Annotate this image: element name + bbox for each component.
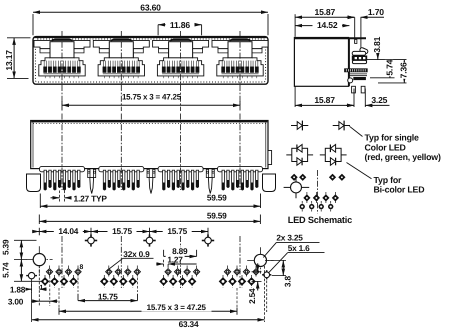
svg-text:13.17: 13.17 — [4, 50, 14, 71]
svg-text:15.75: 15.75 — [112, 226, 132, 236]
front view port 2 contact comb — [102, 61, 104, 67]
front view port 4 top bump — [230, 39, 251, 40]
front view port 1 latch window — [50, 42, 74, 58]
svg-text:63.60: 63.60 — [140, 2, 161, 12]
leader to bi-color LED note — [347, 163, 372, 179]
svg-text:LED Schematic: LED Schematic — [288, 215, 352, 225]
LED schematic pad cluster: bottom pin pads — [301, 201, 303, 212]
side view LED leads bar — [345, 69, 368, 72]
svg-text:3.8: 3.8 — [283, 276, 293, 288]
rear view center spike — [90, 178, 94, 194]
side view bottom pins — [352, 86, 356, 93]
LED schematic pad cluster: LED pads — [291, 174, 297, 180]
rear view left mounting post — [27, 174, 41, 192]
front view port 1 contact comb — [43, 61, 45, 67]
svg-text:Color LED: Color LED — [365, 142, 406, 152]
rear view right mounting post — [263, 174, 276, 192]
svg-text:8: 8 — [80, 264, 84, 271]
side view striped bar — [352, 56, 367, 60]
side view: dim 1.70 — [347, 16, 355, 18]
side view nose lines — [348, 38, 350, 86]
side view LED dome — [348, 78, 353, 83]
front view port 3 lower cavity — [157, 58, 203, 76]
front view port 3 opening — [153, 40, 209, 57]
footprint: dim 3.00 — [49, 276, 51, 306]
footprint: dim 8.89 — [163, 250, 165, 257]
footprint port 2 centerline — [120, 236, 122, 288]
svg-text:15.75 x 3 = 47.25: 15.75 x 3 = 47.25 — [122, 93, 182, 102]
svg-text:Typ for single: Typ for single — [365, 133, 420, 143]
front view: port spacing dim 15.75 x 3 = 47.25 — [61, 101, 63, 111]
rear view port 3 pin shelf — [158, 167, 203, 172]
svg-text:15.75: 15.75 — [167, 226, 187, 236]
side view latch profile — [359, 47, 368, 54]
front view body inner dotted border — [35, 39, 265, 82]
front view port 4 centerline — [239, 31, 241, 105]
svg-text:5.74: 5.74 — [0, 262, 10, 278]
svg-text:1.27 TYP: 1.27 TYP — [74, 193, 108, 203]
svg-text:14.52: 14.52 — [317, 20, 338, 30]
footprint: dim 15.75 (pin group pitch) — [77, 278, 79, 293]
front view port 1 top bump — [52, 39, 73, 40]
side view: dim 3.81 — [377, 41, 379, 60]
LED schematic pad cluster: mounting hole — [284, 186, 291, 188]
side view: dim 3.25 — [346, 104, 354, 106]
rear view port 1 pin shelf — [40, 167, 85, 172]
footprint port 4 bottom pad row — [222, 275, 224, 288]
front view port 4 latch window — [228, 42, 252, 58]
footprint port 3 top pad row — [167, 266, 169, 279]
svg-text:3.25: 3.25 — [371, 95, 387, 105]
rear view port 2 pins — [103, 170, 105, 189]
side view: dim 14.52 — [295, 25, 349, 27]
rear view center spike — [208, 178, 212, 194]
rear view port 2 pin shelf — [99, 167, 144, 172]
side view: dim 5.74 — [389, 60, 391, 78]
footprint port 3 bottom pad row — [163, 275, 165, 288]
rear view LED pin stubs — [88, 169, 90, 177]
rear view port 3 centerline — [180, 114, 182, 191]
footprint port 2 bottom pad row — [103, 275, 105, 288]
LED schematic pad cluster: top pin pads — [306, 192, 308, 203]
svg-text:11.86: 11.86 — [170, 20, 190, 30]
footprint: left mounting hole 3.25 — [26, 259, 53, 261]
footprint port 1 centerline — [61, 236, 63, 288]
rear view port 4 centerline — [239, 114, 241, 191]
svg-text:15.75 x 3 = 47.25: 15.75 x 3 = 47.25 — [147, 303, 207, 312]
rear view LED pin stubs — [147, 169, 149, 177]
footprint: right LED/ground pad — [266, 270, 268, 279]
side view lower latch bar — [352, 60, 366, 63]
side view: top width dim 15.87 — [295, 16, 354, 18]
footprint: left vertical dims 5.39 / 5.74 — [14, 239, 37, 241]
footprint port 3 centerline — [180, 236, 182, 288]
front view port 4 contact comb — [221, 61, 223, 67]
rear view: post span dim 59.59 — [39, 194, 41, 209]
footprint port 4 centerline — [239, 236, 241, 288]
rear view right protrusion — [268, 151, 272, 165]
footprint: left ground pad — [28, 272, 34, 278]
footprint: top dims 14.04 / 15.75 / 15.75 — [33, 231, 39, 233]
svg-text:5.74: 5.74 — [384, 59, 394, 75]
side view: bottom dim 15.87 — [294, 86, 296, 107]
footprint: dim 3.8 — [265, 259, 286, 261]
front view body outline — [33, 37, 268, 85]
side view LED body bar — [354, 77, 366, 80]
rear view port 2 centerline — [120, 114, 122, 191]
rear view LED pin stubs — [206, 169, 208, 177]
rear view port 1 centerline — [61, 114, 63, 191]
svg-text:59.59: 59.59 — [207, 211, 227, 221]
svg-text:5.39: 5.39 — [0, 239, 10, 255]
LED schematic: bi-color LED B1 — [286, 154, 292, 156]
svg-text:(red, green, yellow): (red, green, yellow) — [365, 152, 441, 162]
front view port 3 top bump — [170, 39, 191, 40]
front view port 2 lower cavity — [98, 58, 144, 76]
svg-text:5x 1.6: 5x 1.6 — [288, 243, 310, 253]
rear view port 4 pin shelf — [218, 167, 263, 172]
footprint: dim 1.27 — [156, 263, 163, 265]
front view port 2 top bump — [111, 39, 132, 40]
svg-text:1.70: 1.70 — [368, 7, 384, 17]
footprint: dim 2.54 — [252, 271, 262, 273]
front view port 3 latch window — [169, 42, 193, 58]
svg-text:2.54: 2.54 — [247, 288, 257, 304]
footprint: LED hole pads (between ports) — [90, 234, 92, 246]
front view port 3 centerline — [180, 31, 182, 111]
svg-text:14.04: 14.04 — [58, 226, 78, 236]
svg-text:3.81: 3.81 — [372, 36, 382, 52]
front view port 3 contact comb — [162, 61, 164, 67]
svg-text:Bi-color LED: Bi-color LED — [374, 185, 425, 195]
front view: height dim 13.17 — [13, 38, 15, 79]
footprint: dim 1.88 — [31, 284, 33, 293]
front view port 1 lower cavity — [39, 58, 85, 76]
footprint: dim 15.75 x 3 = 47.25 — [58, 288, 60, 310]
front view port 2 centerline — [120, 31, 122, 111]
svg-text:1: 1 — [40, 284, 44, 291]
footprint port 1 top pad row — [49, 266, 51, 279]
svg-text:3.00: 3.00 — [8, 296, 24, 306]
leader to single color LED note — [350, 126, 363, 136]
svg-text:15.87: 15.87 — [315, 7, 336, 17]
front view: overall width dim 63.60 — [33, 11, 268, 13]
front view port 1 centerline — [61, 31, 63, 105]
front view port 4 opening — [212, 40, 268, 57]
side view body outline — [294, 38, 348, 87]
svg-text:59.59: 59.59 — [207, 193, 227, 203]
LED schematic pad cluster: centerline — [317, 170, 319, 214]
rear view: pin pitch dim 1.27 TYP — [59, 191, 61, 202]
footprint: right mounting hole 3.25 — [247, 259, 273, 261]
footprint port 2 top pad row — [108, 266, 110, 279]
footprint port 4 top pad row — [227, 266, 229, 279]
svg-text:32x 0.9: 32x 0.9 — [123, 249, 150, 259]
svg-text:2x 3.25: 2x 3.25 — [276, 232, 303, 242]
LED schematic: single color LED diode D2 — [333, 125, 350, 127]
svg-text:Typ for: Typ for — [374, 175, 403, 185]
front view port 4 lower cavity — [217, 58, 263, 76]
rear view port 1 pins — [44, 170, 46, 189]
rear view center spike — [149, 178, 153, 194]
front view port 2 latch window — [109, 42, 133, 58]
footprint port 1 bottom pad row — [44, 275, 46, 288]
rear view body outline — [31, 121, 268, 169]
svg-text:1.88: 1.88 — [10, 284, 26, 294]
front view port 1 opening — [34, 40, 90, 57]
rear view port 3 pins — [163, 170, 165, 189]
front view port 2 opening — [93, 40, 149, 57]
svg-text:63.34: 63.34 — [179, 319, 199, 329]
svg-text:7.36: 7.36 — [399, 62, 409, 78]
side view: dim 7.36 — [403, 60, 405, 83]
front view: port opening width dim 11.86 — [158, 24, 166, 26]
svg-text:15.75: 15.75 — [98, 291, 118, 301]
svg-text:15.87: 15.87 — [314, 95, 335, 105]
svg-text:1.27: 1.27 — [167, 254, 183, 264]
LED schematic: single color LED diode D1 — [291, 125, 308, 127]
footprint: hole span dim 59.59 — [38, 215, 40, 225]
footprint: overall dim 63.34 — [264, 266, 266, 322]
rear view port 4 pins — [222, 170, 224, 189]
LED schematic: bi-color LED B2 — [320, 154, 326, 156]
